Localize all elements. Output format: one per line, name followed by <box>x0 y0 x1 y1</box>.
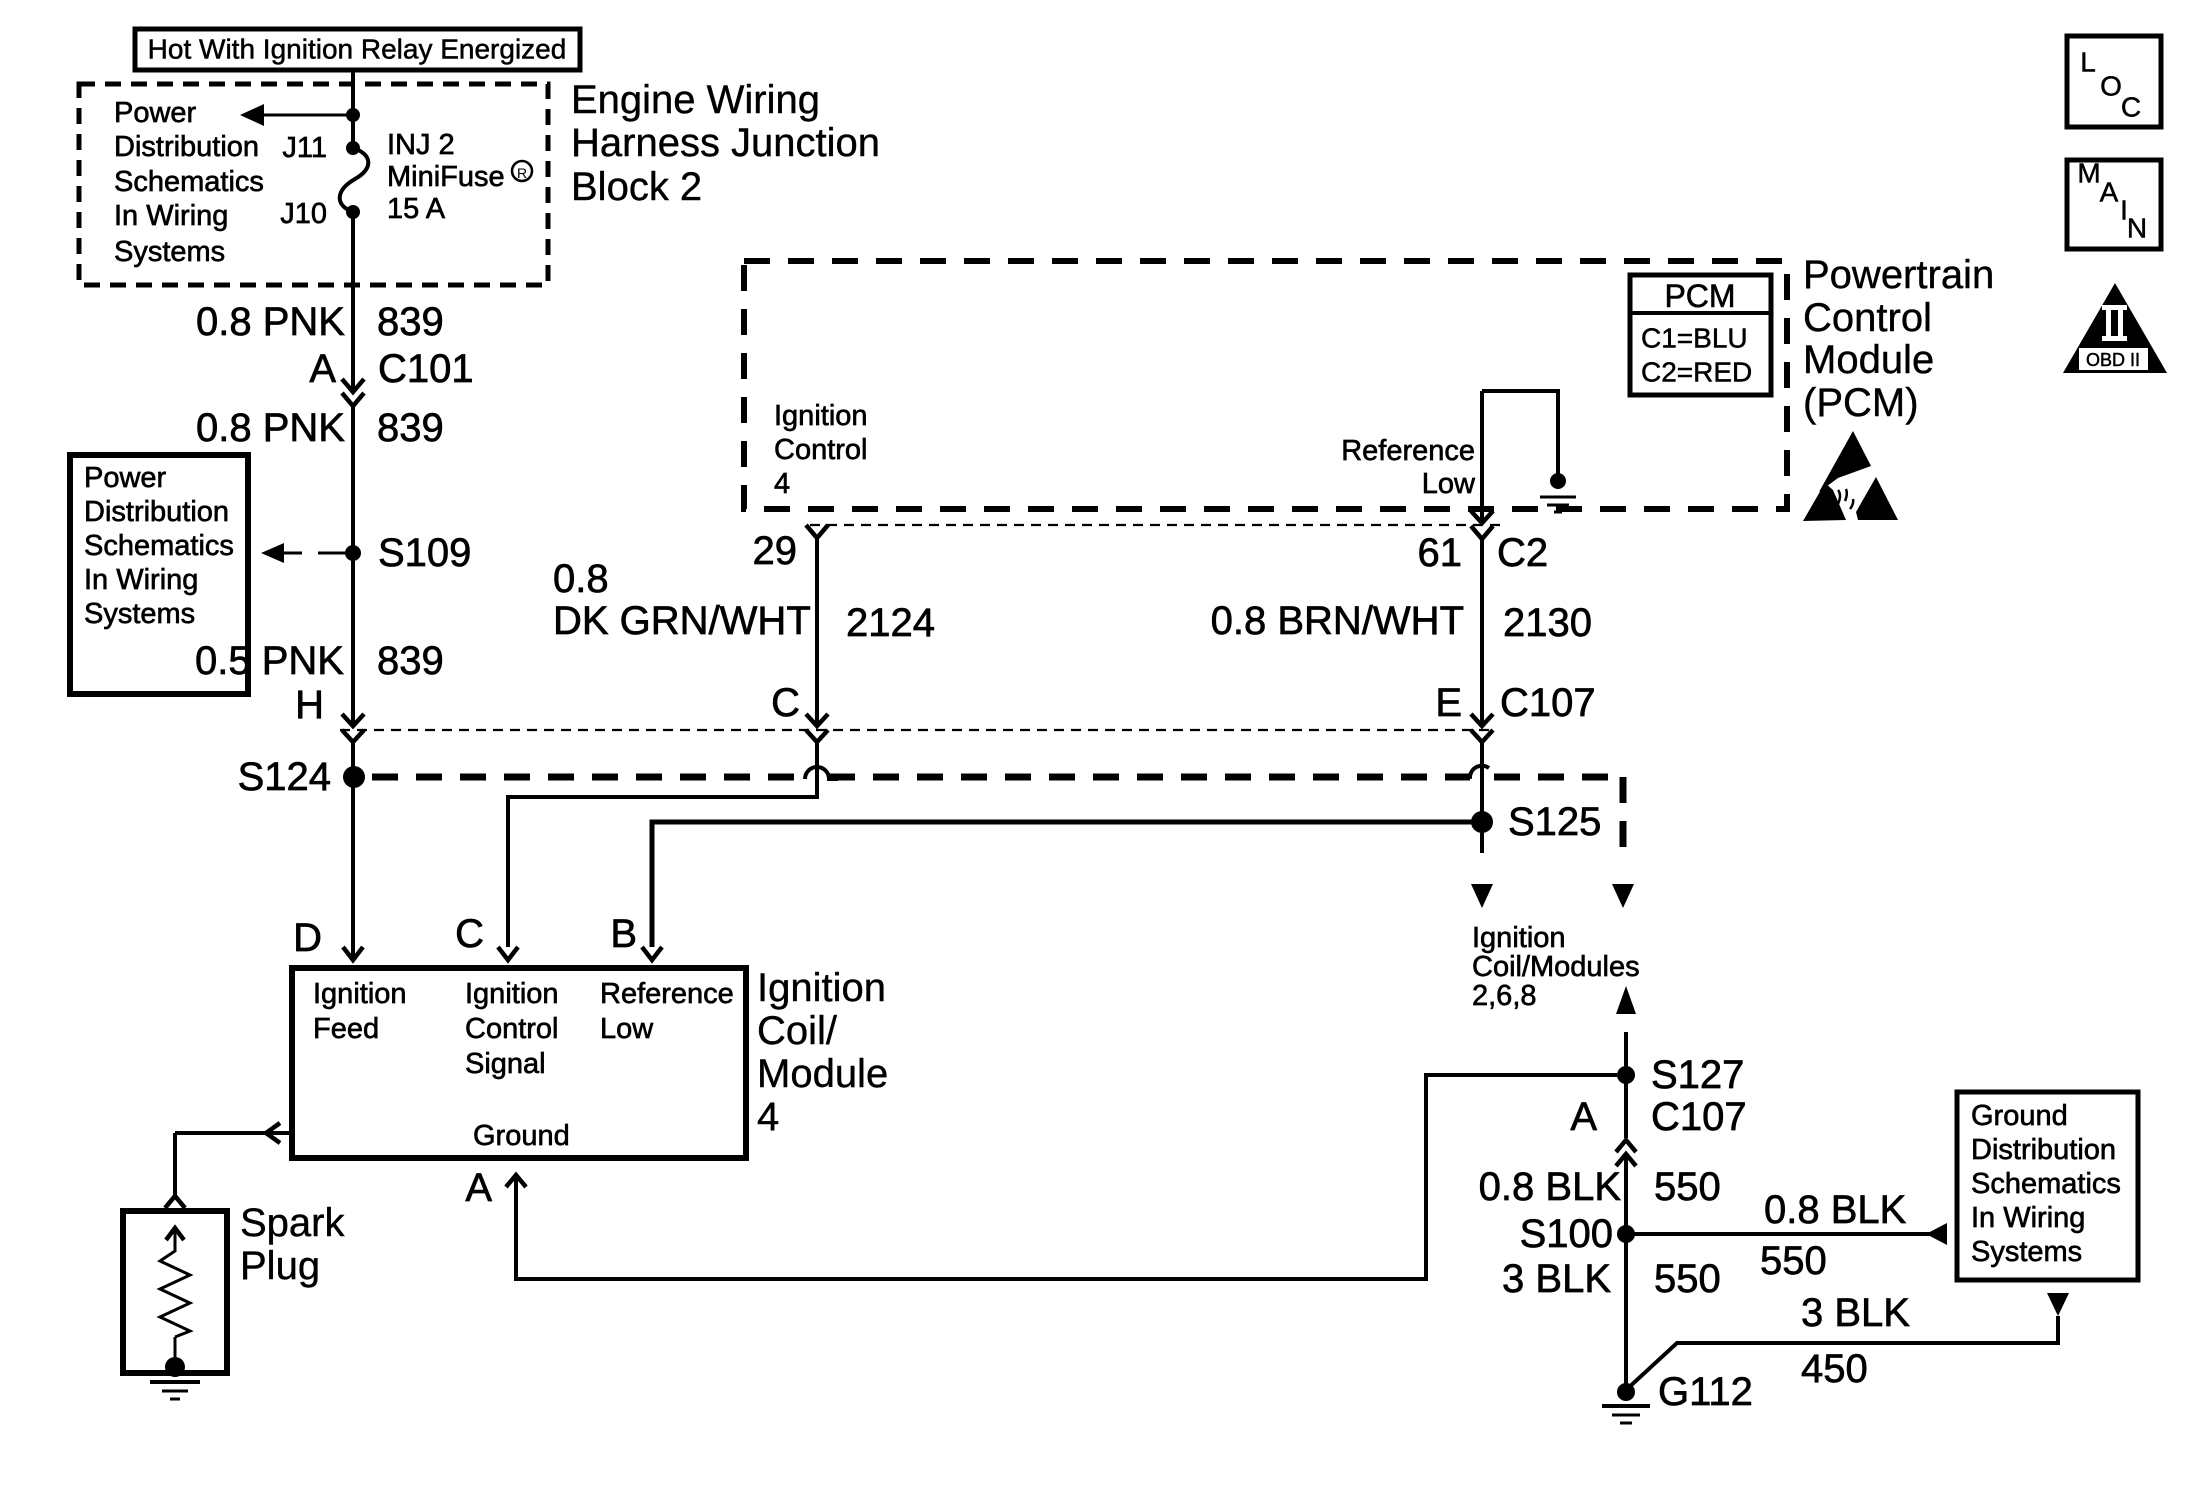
connector C107 female chevrons H C E <box>342 730 1493 742</box>
svg-text:0.8 BLK: 0.8 BLK <box>1479 1165 1622 1209</box>
svg-text:450: 450 <box>1801 1347 1868 1391</box>
wire label 0.8 BLK 550 (horizontal) <box>1760 1188 1907 1283</box>
svg-text:29: 29 <box>753 529 798 573</box>
svg-text:Engine Wiring: Engine Wiring <box>571 78 820 122</box>
wire ignition feed to spark plug <box>165 1123 292 1208</box>
wire label 0.8 PNK 839 (above C101) <box>196 300 444 344</box>
svg-text:Reference: Reference <box>600 978 734 1010</box>
title: Ignition Coil/Module 4 <box>757 966 888 1139</box>
svg-text:In Wiring: In Wiring <box>114 200 228 232</box>
note box: Power Distribution Schematics In Wiring Systems <box>70 455 248 694</box>
svg-text:Power: Power <box>114 97 197 129</box>
svg-text:Harness Junction: Harness Junction <box>571 121 880 165</box>
wire label 0.8 PNK 839 (below C101) <box>196 406 444 450</box>
svg-text:839: 839 <box>377 406 444 450</box>
svg-text:Schematics: Schematics <box>114 166 264 198</box>
wire connector to S100 <box>1624 1156 1628 1234</box>
svg-text:0.8 PNK: 0.8 PNK <box>196 300 345 344</box>
svg-text:3 BLK: 3 BLK <box>1502 1257 1611 1301</box>
wire J10 down out of junction block <box>351 212 355 391</box>
svg-text:O: O <box>2100 71 2122 102</box>
svg-text:S100: S100 <box>1520 1212 1613 1256</box>
svg-text:DK GRN/WHT: DK GRN/WHT <box>553 599 811 643</box>
svg-text:Feed: Feed <box>313 1013 379 1045</box>
svg-text:839: 839 <box>377 639 444 683</box>
svg-text:A: A <box>2100 177 2119 208</box>
svg-text:Control: Control <box>465 1013 559 1045</box>
svg-text:61: 61 <box>1418 531 1463 575</box>
wire label 0.8 BLK 550 <box>1479 1165 1721 1209</box>
svg-text:C1=BLU: C1=BLU <box>1641 323 1748 354</box>
svg-text:N: N <box>2127 213 2147 244</box>
svg-text:Ignition: Ignition <box>757 966 886 1010</box>
arrow from S109 to note box <box>261 543 345 563</box>
label: Ignition Coil/Modules 2,6,8 <box>1472 922 1640 1012</box>
svg-text:C: C <box>771 681 800 725</box>
svg-text:Ignition: Ignition <box>313 978 407 1010</box>
spark plug resistor <box>160 1251 190 1337</box>
svg-text:L: L <box>2080 47 2096 78</box>
svg-text:J11: J11 <box>282 132 327 164</box>
svg-text:Spark: Spark <box>240 1201 345 1245</box>
svg-text:A: A <box>1570 1095 1597 1139</box>
svg-text:Coil/Modules: Coil/Modules <box>1472 951 1640 983</box>
svg-text:Systems: Systems <box>1971 1236 2082 1268</box>
svg-text:0.8: 0.8 <box>553 557 609 601</box>
svg-text:G112: G112 <box>1658 1370 1753 1414</box>
arrow up to ignition coil modules <box>1616 986 1636 1066</box>
heavy dashed wire S124 to right with hops <box>372 766 1626 779</box>
connector C2 female chevron pin 29 <box>806 525 828 538</box>
splice S109 dot <box>345 545 361 561</box>
svg-text:S125: S125 <box>1508 800 1601 844</box>
svg-text:D: D <box>293 916 322 960</box>
connector C107 thin dashed line <box>340 729 1493 731</box>
svg-text:C2=RED: C2=RED <box>1641 357 1752 388</box>
spark plug internal arrow <box>166 1228 184 1252</box>
wire S109 down to C107 <box>351 553 355 726</box>
svg-text:0.8 BRN/WHT: 0.8 BRN/WHT <box>1211 599 1464 643</box>
pin J11 dot <box>346 141 360 155</box>
ground G112 dot <box>1617 1383 1635 1401</box>
ESD sensitive symbol <box>1803 431 1898 521</box>
svg-text:550: 550 <box>1654 1257 1721 1301</box>
wire pin 29 down to C107 <box>815 537 819 726</box>
wire S125 long horizontal to B <box>652 822 1473 947</box>
pin label: Ignition Control 4 <box>774 400 868 500</box>
wire label 0.5 PNK 839 <box>195 639 444 683</box>
svg-text:Plug: Plug <box>240 1244 320 1288</box>
wire label 3 BLK 550 <box>1502 1257 1721 1301</box>
wire node to J11 <box>351 115 355 148</box>
title: Spark Plug <box>240 1201 345 1288</box>
svg-text:Systems: Systems <box>84 598 195 630</box>
junction block dashed box <box>79 84 548 285</box>
note text: Power Distribution Schematics In Wiring Systems (top) <box>114 97 264 268</box>
pin name: Ignition Control Signal <box>465 978 559 1080</box>
svg-text:In Wiring: In Wiring <box>1971 1202 2085 1234</box>
svg-text:Systems: Systems <box>114 236 225 268</box>
PCM dashed box <box>744 261 1787 509</box>
wire D from S124 down <box>351 777 355 959</box>
svg-text:H: H <box>295 683 324 727</box>
svg-text:550: 550 <box>1654 1165 1721 1209</box>
svg-text:MiniFuse: MiniFuse <box>387 161 505 193</box>
svg-text:In Wiring: In Wiring <box>84 564 198 596</box>
svg-text:M: M <box>2077 158 2100 189</box>
connector C2 female chevron pin 61 <box>1471 526 1493 539</box>
svg-text:Signal: Signal <box>465 1048 546 1080</box>
svg-text:E: E <box>1435 681 1462 725</box>
arrow into ground distribution box <box>1926 1223 1947 1245</box>
connector C107 male arrows H C E <box>342 714 1493 726</box>
svg-text:Ignition: Ignition <box>774 400 868 432</box>
internal ground symbol <box>1540 497 1576 512</box>
ignition coil module box <box>292 968 746 1158</box>
pin name: Ignition Feed <box>313 978 407 1045</box>
svg-text:R: R <box>517 165 527 181</box>
splice S100 dot <box>1617 1225 1635 1243</box>
wire label 3 BLK 450 <box>1801 1291 1910 1391</box>
svg-text:PCM: PCM <box>1664 278 1735 314</box>
wire from hot box into junction block <box>351 72 355 115</box>
OBD II triangle symbol <box>2063 283 2167 373</box>
svg-text:Module: Module <box>757 1052 888 1096</box>
connector C101 (male arrow / female chevron) <box>342 379 364 406</box>
svg-text:Ground: Ground <box>473 1120 570 1152</box>
ground wire A up arrow <box>506 1075 1617 1279</box>
svg-text:S124: S124 <box>238 755 331 799</box>
svg-text:Module: Module <box>1803 338 1934 382</box>
svg-text:Low: Low <box>600 1013 654 1045</box>
arrow to Power Distribution (top) <box>240 104 353 126</box>
svg-text:Low: Low <box>1422 468 1476 500</box>
wire label 0.8 BRN/WHT 2130 <box>1211 599 1592 645</box>
svg-text:C: C <box>2121 92 2141 123</box>
svg-text:S127: S127 <box>1651 1053 1744 1097</box>
svg-text:0.8 PNK: 0.8 PNK <box>196 406 345 450</box>
svg-text:Control: Control <box>1803 296 1932 340</box>
arrow from ground distribution box down <box>2047 1293 2069 1316</box>
wire S100 down to G112 <box>1624 1234 1628 1392</box>
spark plug ground dot <box>165 1357 185 1377</box>
svg-text:Block 2: Block 2 <box>571 165 702 209</box>
svg-text:Reference: Reference <box>1341 435 1475 467</box>
svg-text:A: A <box>465 1166 492 1210</box>
svg-text:C101: C101 <box>378 347 474 391</box>
svg-text:C: C <box>455 912 484 956</box>
svg-text:4: 4 <box>757 1095 779 1139</box>
wire pin 61 down <box>1480 391 1484 522</box>
splice S127 dot <box>1617 1066 1635 1084</box>
svg-text:Power: Power <box>84 462 167 494</box>
svg-text:0.8 BLK: 0.8 BLK <box>1764 1188 1907 1232</box>
heavy dashed wire down to coil modules arrow <box>1620 777 1627 855</box>
svg-text:Hot With Ignition Relay Energi: Hot With Ignition Relay Energized <box>148 34 567 65</box>
svg-text:Powertrain: Powertrain <box>1803 253 1994 297</box>
pin label: Reference Low <box>1341 435 1476 500</box>
pin J10 dot <box>346 205 360 219</box>
svg-text:15 A: 15 A <box>387 193 446 225</box>
svg-text:4: 4 <box>774 468 790 500</box>
svg-text:C107: C107 <box>1500 681 1596 725</box>
svg-text:550: 550 <box>1760 1239 1827 1283</box>
title: Engine Wiring Harness Junction Block 2 <box>571 78 880 209</box>
svg-text:Ignition: Ignition <box>1472 922 1566 954</box>
wire C101 to S109 <box>351 405 355 553</box>
wire label 0.8 DK GRN/WHT 2124 <box>553 557 935 645</box>
svg-text:B: B <box>610 912 637 956</box>
connector C107 chevrons (right) <box>1616 1140 1636 1166</box>
pin name: Reference Low <box>600 978 734 1045</box>
wire S127 down to connector <box>1624 1075 1628 1138</box>
svg-text:Ignition: Ignition <box>465 978 559 1010</box>
arrow to ignition coil modules (dashed branch) <box>1612 884 1634 908</box>
svg-text:839: 839 <box>377 300 444 344</box>
wire pin 61 down to C107 <box>1480 538 1484 726</box>
svg-text:3 BLK: 3 BLK <box>1801 1291 1910 1335</box>
svg-text:Distribution: Distribution <box>84 496 229 528</box>
fuse INJ 2 MiniFuse 15 A <box>340 148 369 212</box>
arrowheads D C B into coil module <box>343 947 662 960</box>
svg-text:2130: 2130 <box>1503 601 1592 645</box>
splice S125 dot <box>1471 811 1493 833</box>
fuse value label: INJ 2 MiniFuse (R) 15 A <box>387 129 532 225</box>
title: Powertrain Control Module (PCM) <box>1803 253 1994 425</box>
splice S124 dot <box>343 766 365 788</box>
wire G112 diagonal to ground distribution box <box>1626 1316 2058 1390</box>
ground G112 symbol <box>1602 1406 1650 1423</box>
wire S125 down arrow stub <box>1480 831 1484 853</box>
svg-text:C107: C107 <box>1651 1095 1747 1139</box>
svg-text:Coil/: Coil/ <box>757 1009 838 1053</box>
svg-text:S109: S109 <box>378 531 471 575</box>
arrow to ignition coil modules (from S125) <box>1471 884 1493 908</box>
svg-text:J10: J10 <box>280 198 327 230</box>
label box: Hot With Ignition Relay Energized <box>135 29 580 70</box>
wire E female down to S125 <box>1480 741 1484 822</box>
svg-text:Distribution: Distribution <box>1971 1134 2116 1166</box>
wire S100 to ground distribution box <box>1626 1232 1930 1236</box>
svg-text:2124: 2124 <box>846 601 935 645</box>
spark plug box <box>123 1211 227 1373</box>
wire C female down, over to C arrow <box>508 741 817 947</box>
svg-text:OBD II: OBD II <box>2086 350 2140 370</box>
svg-text:Distribution: Distribution <box>114 131 259 163</box>
svg-text:(PCM): (PCM) <box>1803 381 1919 425</box>
svg-text:Schematics: Schematics <box>84 530 234 562</box>
node junction dot top <box>346 108 360 122</box>
svg-text:INJ 2: INJ 2 <box>387 129 455 161</box>
internal wire Reference Low to ground <box>1482 391 1558 474</box>
svg-text:0.5 PNK: 0.5 PNK <box>195 639 344 683</box>
svg-text:A: A <box>309 347 336 391</box>
spark plug ground symbol <box>150 1382 200 1399</box>
svg-text:Ground: Ground <box>1971 1100 2068 1132</box>
note box: Ground Distribution Schematics In Wiring Systems <box>1957 1092 2138 1280</box>
connector C2 thin dashed line <box>810 524 1500 526</box>
MAIN reference box <box>2067 158 2161 250</box>
LOC reference box <box>2067 36 2161 127</box>
internal ground dot <box>1550 473 1566 489</box>
svg-text:C2: C2 <box>1497 531 1548 575</box>
svg-text:Control: Control <box>774 434 868 466</box>
svg-text:Schematics: Schematics <box>1971 1168 2121 1200</box>
connector C2 male arrow at pin 61 <box>1471 511 1493 523</box>
wire H female to S124 <box>351 741 355 777</box>
spark plug lower wire <box>174 1337 177 1362</box>
svg-text:2,6,8: 2,6,8 <box>1472 980 1537 1012</box>
PCM connector color box <box>1630 275 1771 395</box>
